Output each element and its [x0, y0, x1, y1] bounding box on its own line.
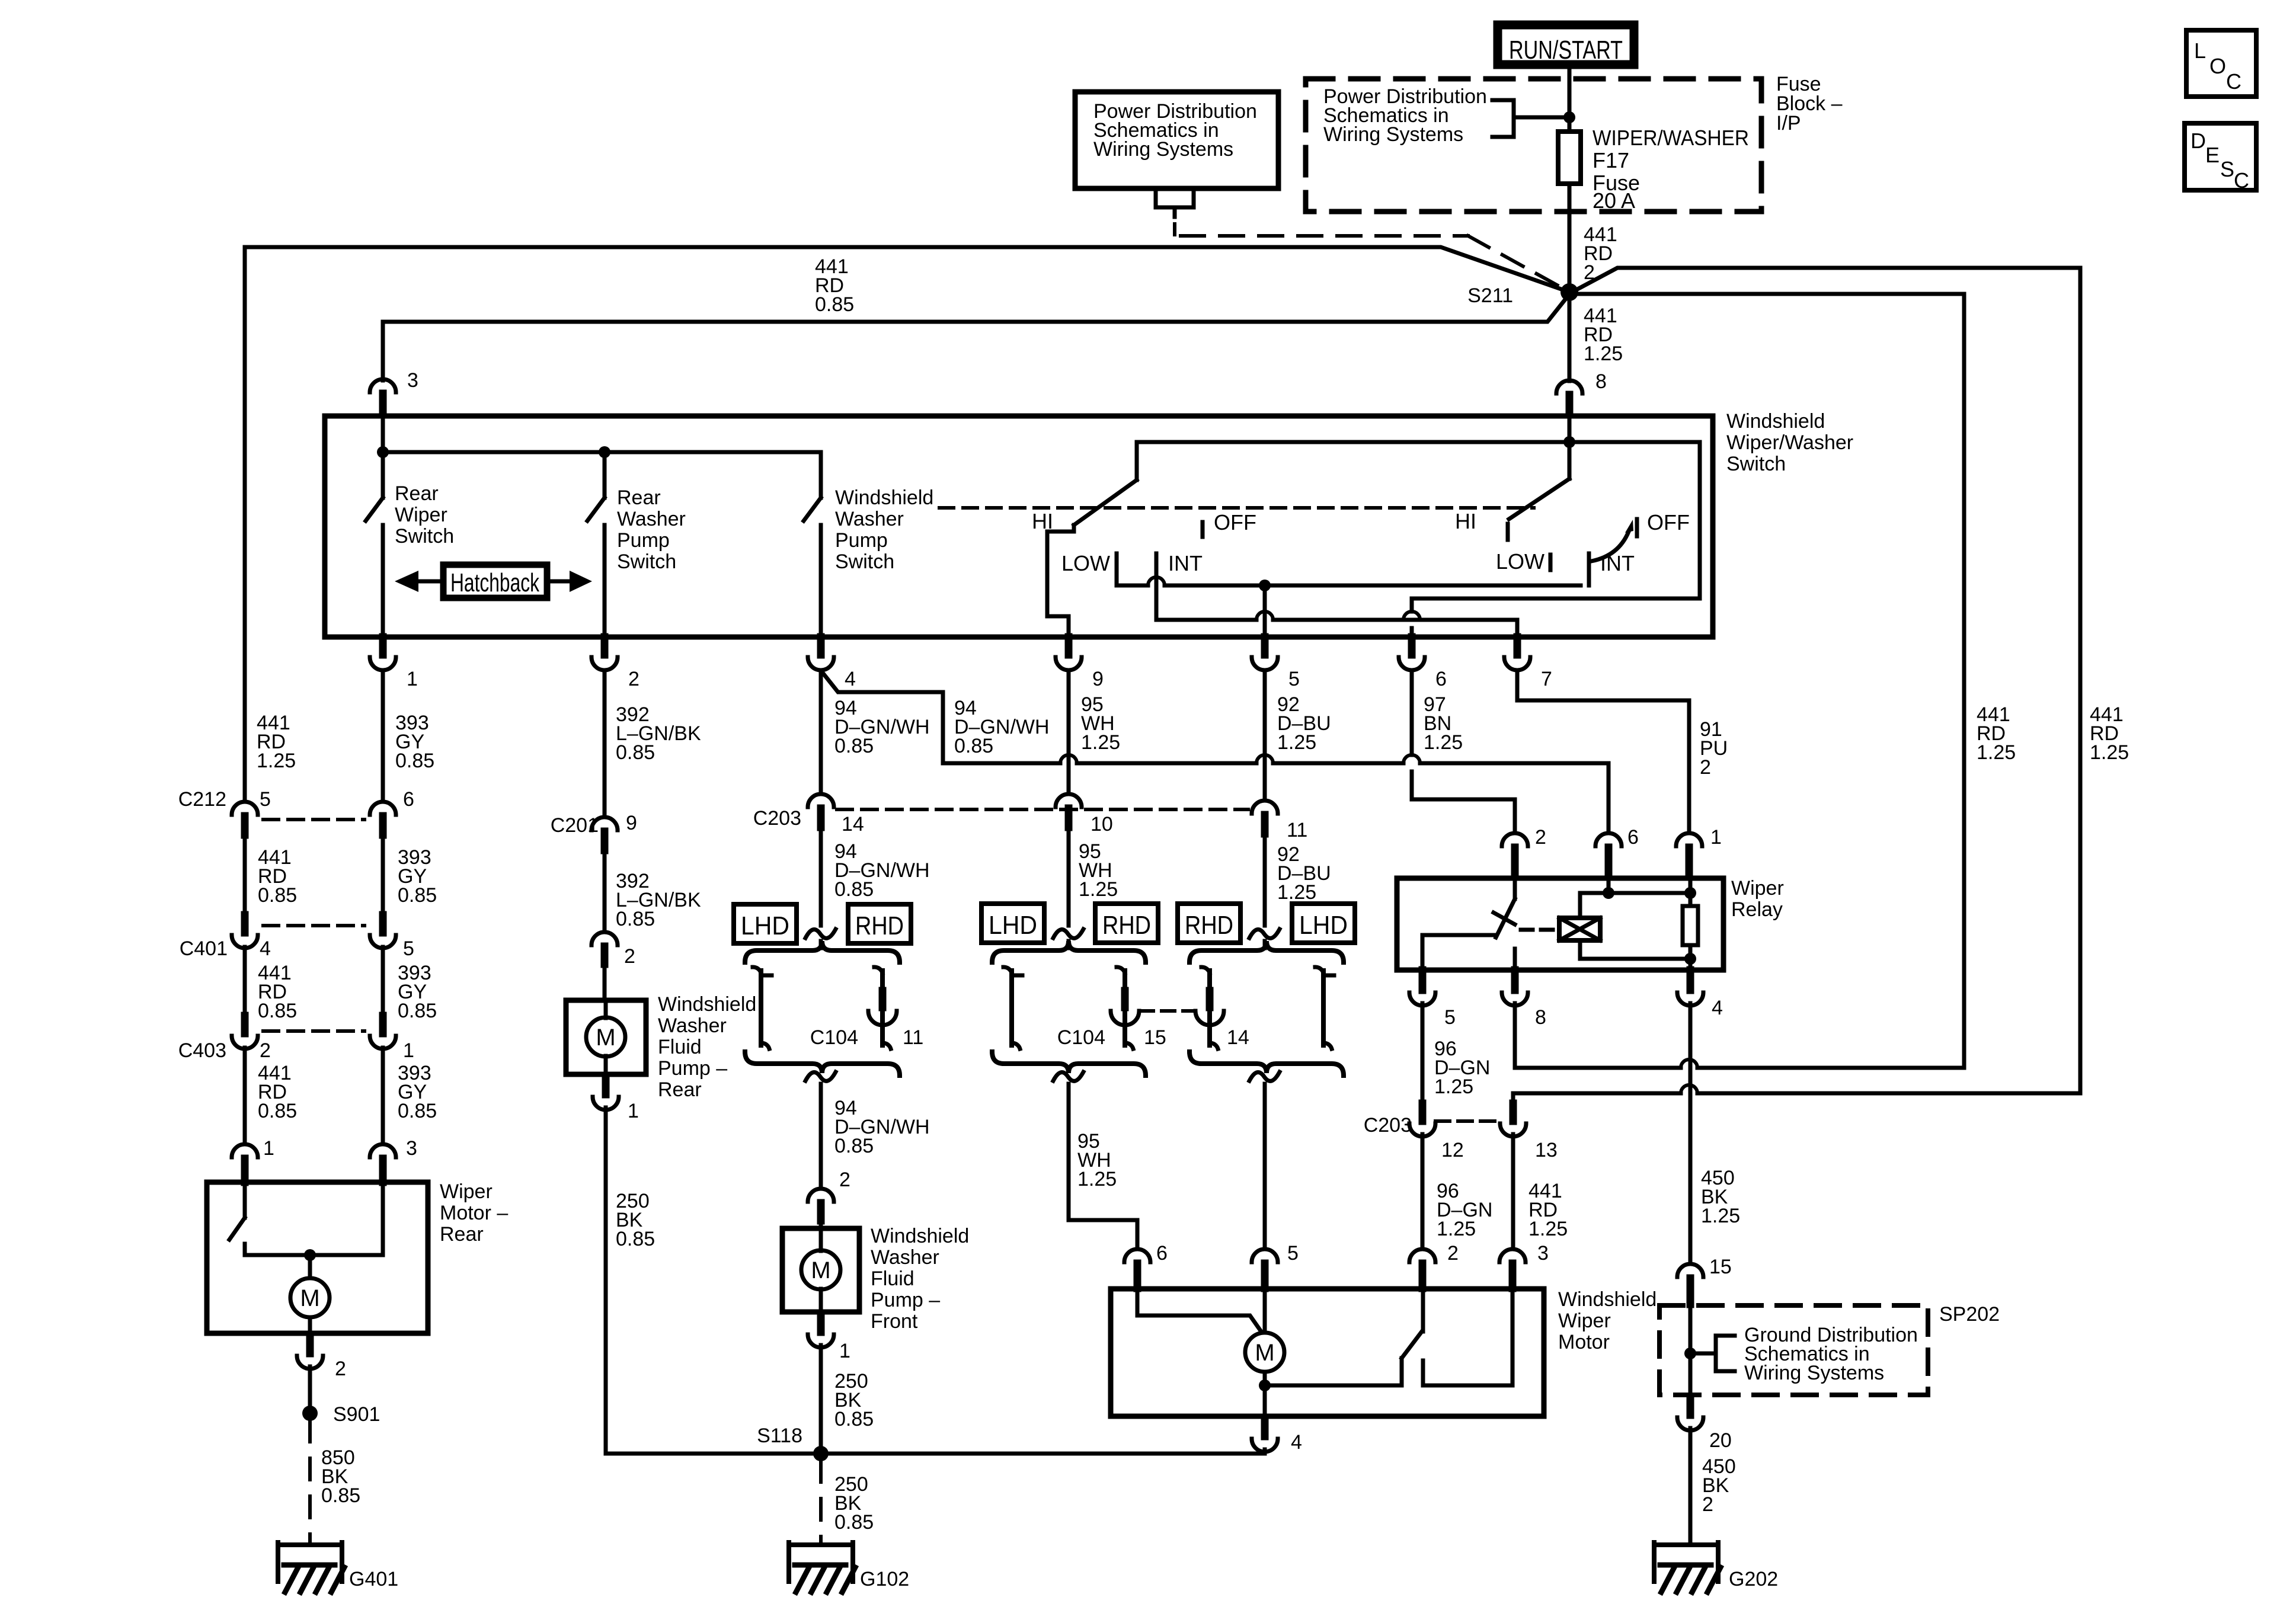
svg-text:C203: C203 [1364, 1114, 1412, 1137]
wire front pump M connections [819, 1228, 823, 1251]
connector pin 5 switch bottom [1261, 637, 1269, 655]
svg-text:Pump –: Pump – [658, 1057, 727, 1080]
wire 250 BK dashed to G102 [819, 1461, 823, 1542]
connector wiper motor pin 3 [1499, 1249, 1526, 1262]
dashed link C401 [263, 924, 364, 927]
svg-text:Pump: Pump [835, 529, 888, 552]
svg-text:Motor: Motor [1558, 1331, 1610, 1353]
svg-text:4: 4 [845, 668, 856, 690]
wire 441 RD riser to C203-13 [1697, 1092, 2080, 1096]
svg-text:Wiring Systems: Wiring Systems [1323, 123, 1463, 146]
node relay pin6 junction [1603, 887, 1614, 899]
wire relay pin 4 down [1689, 1003, 1693, 1264]
svg-text:1.25: 1.25 [1528, 1218, 1568, 1240]
wire 450 BK 2 to G202 [1689, 1428, 1693, 1542]
svg-text:Rear: Rear [395, 482, 439, 505]
svg-text:2: 2 [1447, 1242, 1459, 1265]
wire into front pump [819, 1221, 823, 1228]
connector pin 9 switch bottom [1065, 637, 1073, 655]
rear washer pump switch arm [603, 452, 607, 498]
brace C104 washer bottom [745, 1052, 900, 1076]
svg-text:Washer: Washer [871, 1246, 939, 1269]
mechanical link dashed line [939, 506, 1534, 510]
left wiper switch arm (HI) [1135, 442, 1139, 480]
svg-text:I/P: I/P [1776, 112, 1801, 135]
svg-text:Washer: Washer [835, 508, 904, 530]
connector C401 cavity 5 [379, 915, 387, 933]
wire from RUN/START to fuse F17 [1568, 69, 1572, 132]
svg-text:Switch: Switch [1726, 453, 1786, 475]
wire 94 below brace to front pump [805, 1072, 836, 1081]
svg-text:RHD: RHD [855, 911, 904, 940]
svg-text:Rear: Rear [440, 1223, 484, 1246]
svg-text:12: 12 [1441, 1139, 1464, 1161]
svg-text:0.85: 0.85 [616, 1228, 655, 1250]
svg-text:D: D [2191, 129, 2206, 153]
svg-text:7: 7 [1541, 668, 1552, 690]
windshield wiper motor box [1111, 1289, 1544, 1416]
svg-text:2: 2 [1535, 826, 1546, 849]
wire motor pin 4 to S118 line [1263, 1449, 1267, 1454]
wire S118 ground line [606, 1452, 1265, 1456]
wire rear motor pin2 to S901 [308, 1366, 312, 1407]
splice S118 [813, 1446, 829, 1461]
wire 94 to LHD/RHD split [819, 827, 823, 926]
svg-text:RHD: RHD [1102, 911, 1151, 940]
wire 441 RD 0.85 C401-C403 [243, 947, 247, 1014]
wire 850 BK dashed to G401 [308, 1420, 312, 1542]
wire S211 up-right to right drop [1574, 268, 2080, 1093]
dashed link C203 upper [837, 808, 1248, 811]
connector wiper relay pin 4 [1687, 970, 1694, 990]
node INT bus to pin 5 [1259, 580, 1271, 591]
svg-text:3: 3 [1537, 1242, 1549, 1265]
svg-text:5: 5 [1287, 1242, 1299, 1265]
wire 393 GY 0.85 C401-C403 [381, 947, 385, 1014]
svg-text:9: 9 [626, 812, 637, 834]
wire 392 to pump [603, 850, 607, 932]
wire 250 BK front pump to S118 [819, 1345, 823, 1447]
svg-text:LHD: LHD [989, 911, 1037, 940]
svg-text:M: M [300, 1285, 319, 1311]
svg-text:M: M [811, 1257, 830, 1283]
svg-text:4: 4 [1712, 997, 1723, 1019]
svg-text:2: 2 [335, 1358, 346, 1380]
splice S211 [1560, 283, 1578, 301]
svg-text:Wiring Systems: Wiring Systems [1093, 138, 1233, 161]
svg-text:11: 11 [1287, 819, 1307, 841]
svg-text:0.85: 0.85 [834, 878, 874, 901]
svg-text:1.25: 1.25 [1424, 731, 1463, 754]
wire 441 RD second left run [383, 296, 1568, 322]
wire 94 branch to relay [822, 672, 1060, 763]
svg-text:0.85: 0.85 [834, 1135, 874, 1157]
terminal C104 92 LHD [1315, 967, 1323, 973]
terminal C104 low LHD [1003, 967, 1012, 973]
svg-text:Switch: Switch [395, 525, 454, 548]
svg-text:2: 2 [1702, 1493, 1713, 1516]
rear washer pump switch contact wire [603, 525, 607, 637]
left INT contact [1155, 553, 1159, 620]
svg-text:Pump: Pump [617, 529, 670, 552]
svg-text:5: 5 [260, 788, 271, 811]
wire 92 below brace to motor pin5 [1249, 1072, 1280, 1081]
svg-text:1.25: 1.25 [1277, 731, 1316, 754]
svg-text:M: M [1255, 1340, 1274, 1366]
svg-text:14: 14 [842, 813, 864, 836]
node rear motor common [304, 1249, 316, 1261]
wire pin3 drop [381, 322, 385, 380]
connector wiper motor pin 2 [1409, 1249, 1435, 1262]
connector C401 cavity 4 [241, 915, 249, 933]
svg-text:5: 5 [1288, 668, 1300, 690]
terminal C104 washer LHD [753, 967, 761, 973]
connector wiper relay pin 2 [1502, 833, 1528, 846]
svg-text:Wiper/Washer: Wiper/Washer [1726, 431, 1853, 454]
wire 441 RD 0.85 to rear motor [243, 1048, 247, 1144]
svg-text:1.25: 1.25 [1277, 881, 1316, 904]
svg-text:OFF: OFF [1647, 510, 1690, 534]
wiper switch pivot bus [1137, 440, 1700, 444]
svg-text:Switch: Switch [835, 550, 894, 573]
fuse block I/P dashed outline [1306, 79, 1761, 212]
connector C203 cavity 14 [808, 794, 834, 807]
splice S901 [302, 1406, 318, 1421]
rear motor common bar [245, 1253, 383, 1257]
wire pump M connections [604, 1000, 608, 1018]
svg-text:3: 3 [407, 369, 418, 392]
tag LOC box [2186, 30, 2256, 97]
left OFF position tick [1201, 522, 1205, 537]
svg-text:0.85: 0.85 [398, 1000, 437, 1022]
brace C104 92 bottom [1189, 1052, 1344, 1076]
svg-text:L: L [2194, 39, 2206, 63]
svg-text:4: 4 [1291, 1431, 1302, 1454]
motor park switch arm [1265, 1358, 1402, 1385]
svg-text:C403: C403 [178, 1039, 226, 1062]
tag LHD box (low speed) [981, 904, 1044, 943]
connector SP202 pin 15 [1677, 1264, 1703, 1277]
tag RHD box (washer) [848, 904, 911, 943]
wire 96 D-GN relay pin5 down [1421, 1003, 1425, 1101]
svg-text:OFF: OFF [1214, 510, 1256, 534]
relay coil [1559, 918, 1600, 940]
wire rear M to pin 2 [308, 1317, 312, 1333]
connector wiper relay pin 6 [1595, 833, 1622, 846]
svg-text:1: 1 [1710, 826, 1722, 849]
relay resistor [1689, 878, 1693, 906]
connector wiper relay pin 1 [1676, 833, 1702, 846]
svg-text:10: 10 [1091, 813, 1113, 836]
connector pin 4 switch bottom [817, 637, 825, 655]
svg-text:0.85: 0.85 [398, 884, 437, 907]
connector C203 cavity 10 [1056, 794, 1082, 807]
brace C104 washer top [745, 941, 900, 962]
wire motor pin6 to M low brush [1137, 1289, 1262, 1333]
svg-text:S901: S901 [333, 1403, 380, 1426]
wire to rear motor M [308, 1255, 312, 1278]
svg-text:Windshield: Windshield [1558, 1288, 1657, 1311]
svg-text:2: 2 [1700, 756, 1711, 779]
svg-text:1.25: 1.25 [1434, 1076, 1473, 1098]
svg-text:Wiper: Wiper [395, 504, 447, 526]
wire pivot bus loop to pin 6 [1412, 442, 1700, 612]
svg-text:8: 8 [1535, 1006, 1546, 1029]
washer fluid pump rear box [566, 1000, 646, 1074]
wiper relay box [1397, 878, 1723, 970]
svg-text:G401: G401 [349, 1568, 398, 1590]
wire 393 GY 0.85 C212-C401 [381, 835, 385, 914]
svg-text:Fluid: Fluid [871, 1267, 914, 1290]
splice pack SP202 dashed box [1659, 1305, 1928, 1395]
left HI contact wire to pin 9 [1047, 532, 1069, 637]
terminal C104 cavity 15 [1117, 967, 1125, 973]
wire 393 GY from pin 1 [381, 670, 385, 801]
svg-text:Windshield: Windshield [871, 1225, 969, 1247]
svg-text:Hatchback: Hatchback [450, 568, 540, 597]
box Power Distribution Schematics (left) [1075, 92, 1278, 188]
svg-text:14: 14 [1227, 1026, 1249, 1049]
wiper motor rear box [207, 1182, 428, 1333]
motor park contact from pin 3 [1423, 1289, 1512, 1385]
connector rear wiper motor pin 1 [232, 1144, 258, 1157]
right LOW position tick [1549, 555, 1553, 570]
wire 250 BK rear pump to S118 line [604, 1108, 608, 1454]
svg-text:0.85: 0.85 [954, 735, 993, 757]
dashed link C403 [263, 1029, 364, 1033]
hatchback range arrows and box [443, 565, 547, 598]
svg-text:8: 8 [1595, 370, 1607, 393]
left LOW contact and wire [1115, 553, 1119, 585]
svg-text:C104: C104 [810, 1026, 858, 1049]
svg-text:C104: C104 [1057, 1026, 1105, 1049]
svg-text:0.85: 0.85 [834, 1408, 874, 1430]
wire LOW to INT bus (upper) [1117, 584, 1148, 588]
connector pin 3 rear wiper switch feed [370, 379, 396, 392]
tag DESC box [2185, 123, 2256, 190]
wire left INT to pin 7 (lower) [1156, 618, 1256, 622]
svg-text:O: O [2209, 54, 2226, 78]
motor M rear [290, 1278, 330, 1317]
wire into rear pump [603, 964, 607, 1000]
svg-text:9: 9 [1092, 668, 1104, 690]
wire pin5 drop [1263, 585, 1267, 637]
svg-text:0.85: 0.85 [616, 908, 655, 930]
tag RHD box (92) [1178, 904, 1240, 943]
svg-text:Windshield: Windshield [1726, 410, 1825, 433]
wire 92 D-BU from pin 5 [1263, 670, 1267, 801]
svg-text:6: 6 [1627, 826, 1639, 849]
rear wiper switch contact wire [381, 525, 385, 637]
wire relay pin6 to pin1 [1609, 891, 1690, 895]
svg-text:1: 1 [403, 1039, 414, 1062]
connector below SP202 pin 20 [1687, 1397, 1694, 1415]
wire M to common node [1263, 1372, 1267, 1385]
svg-text:4: 4 [260, 937, 271, 960]
svg-text:LOW: LOW [1496, 549, 1544, 574]
svg-text:1.25: 1.25 [1081, 731, 1120, 754]
svg-text:0.85: 0.85 [815, 293, 854, 316]
svg-text:Wiper: Wiper [440, 1180, 493, 1203]
svg-text:2: 2 [260, 1039, 271, 1062]
svg-text:15: 15 [1709, 1256, 1732, 1278]
bracket below left note [1156, 188, 1194, 207]
svg-text:Windshield: Windshield [835, 486, 933, 509]
svg-text:1.25: 1.25 [1584, 343, 1623, 365]
svg-text:S211: S211 [1467, 284, 1513, 307]
connector C403 cavity 1 [379, 1016, 387, 1033]
wire pin 3 into box [381, 416, 385, 452]
node motor common [1259, 1379, 1271, 1391]
wire 392 L-GN/BK from pin 2 [603, 670, 607, 817]
relay switch arm [1513, 878, 1517, 899]
right wiper switch arm (HI) [1568, 442, 1572, 479]
svg-text:Motor –: Motor – [440, 1202, 508, 1224]
rear wiper switch arm [381, 452, 385, 498]
svg-text:E: E [2205, 143, 2220, 167]
svg-text:1.25: 1.25 [2090, 741, 2129, 764]
svg-text:HI: HI [1032, 509, 1053, 533]
svg-text:13: 13 [1535, 1139, 1558, 1161]
node relay resistor bottom [1684, 953, 1696, 965]
connector rear motor pin 2 [306, 1336, 314, 1353]
hot-at-all-times bar RUN/START [1498, 25, 1634, 65]
svg-text:LHD: LHD [1299, 911, 1348, 940]
connector wiper motor pin 4 [1261, 1419, 1269, 1436]
svg-text:HI: HI [1455, 509, 1476, 533]
wire motor pin5 to M [1263, 1289, 1267, 1333]
svg-text:1.25: 1.25 [1077, 1168, 1117, 1190]
svg-text:0.85: 0.85 [321, 1484, 360, 1507]
svg-text:C: C [2234, 168, 2249, 193]
svg-text:G202: G202 [1729, 1568, 1778, 1590]
connector C203 cavity 11 [1252, 801, 1278, 814]
svg-text:Wiper: Wiper [1731, 877, 1784, 900]
windshield washer pump switch contact wire [819, 525, 823, 637]
svg-text:C: C [2226, 69, 2241, 94]
node relay pin1 junction [1684, 887, 1696, 899]
svg-text:2: 2 [628, 668, 639, 690]
relay switch contact to pin 8 [1513, 949, 1517, 970]
svg-text:1.25: 1.25 [1977, 741, 2016, 764]
connector wiper relay pin 5 [1419, 970, 1427, 990]
svg-text:Switch: Switch [617, 550, 676, 573]
wire 393 GY 0.85 to rear motor [381, 1048, 385, 1144]
relay common to pin 5 [1422, 935, 1495, 970]
svg-text:Wiper: Wiper [1558, 1310, 1611, 1332]
svg-text:0.85: 0.85 [258, 884, 297, 907]
svg-text:WIPER/WASHER: WIPER/WASHER [1593, 126, 1749, 150]
svg-text:S118: S118 [757, 1425, 802, 1447]
svg-text:1.25: 1.25 [257, 750, 296, 772]
right INT-OFF arrow [1591, 532, 1629, 561]
svg-text:LHD: LHD [741, 911, 789, 940]
connector C203 cavity 13 [1510, 1103, 1517, 1121]
svg-text:Rear: Rear [617, 486, 661, 509]
node SP202 junction [1684, 1347, 1696, 1359]
svg-text:SP202: SP202 [1939, 1303, 2000, 1326]
svg-text:Rear: Rear [658, 1078, 702, 1101]
ground G202 [1654, 1542, 1718, 1547]
wire fuse to S211 [1568, 184, 1572, 287]
connector front washer pump pin 2 [808, 1189, 834, 1202]
node fuse feed junction [1563, 111, 1575, 123]
wire S211 right to second drop [1576, 294, 1964, 1068]
switch feed bus (left) [383, 450, 821, 454]
svg-text:LOW: LOW [1061, 551, 1110, 575]
motor M front washer pump [801, 1250, 840, 1289]
brace C104 low bottom [992, 1052, 1146, 1076]
crossover lower wire over pin6 wire [1403, 612, 1420, 620]
motor M rear washer pump [586, 1017, 625, 1057]
terminal C104 cavity 11 [874, 967, 882, 973]
connector wiper motor pin 5 [1252, 1249, 1278, 1262]
connector front washer pump pin 1 [817, 1314, 825, 1332]
wire motor common to pin 4 [1263, 1385, 1267, 1416]
right OFF position tick [1635, 519, 1639, 536]
connector C201 cavity 9 [591, 817, 618, 830]
dashed link C104 15-14 [1140, 1009, 1194, 1013]
svg-text:6: 6 [403, 788, 414, 811]
wire relay pin 6 to coil [1607, 878, 1611, 893]
rear motor park contact [243, 1244, 247, 1255]
wire 97 BN to relay pin 2 [1412, 799, 1515, 833]
wire pin 8 into box [1568, 416, 1572, 442]
rear motor park switch arm [243, 1182, 247, 1218]
node bus at rear washer switch [599, 446, 610, 458]
svg-text:20: 20 [1709, 1429, 1732, 1452]
dashed link C203 lower [1435, 1119, 1500, 1123]
wire 95 below brace to motor [1053, 1072, 1083, 1081]
tag LHD box (92) [1292, 904, 1355, 943]
connector rear washer pump pin 2 [591, 932, 618, 945]
svg-text:Front: Front [871, 1310, 918, 1333]
dashed wire from note bracket to S211 [1173, 224, 1176, 235]
svg-text:M: M [596, 1025, 615, 1051]
wire coil bottom to pin 4 leg [1578, 940, 1582, 959]
svg-text:Wiring Systems: Wiring Systems [1744, 1362, 1884, 1384]
svg-text:C212: C212 [178, 788, 226, 811]
wire 441 RD to motor pin 3 [1511, 1134, 1515, 1249]
bracket SP202 note [1690, 1352, 1716, 1356]
svg-text:C401: C401 [180, 937, 228, 960]
svg-text:RUN/START: RUN/START [1509, 36, 1623, 65]
ground G401 [278, 1542, 342, 1547]
connector pin 8 windshield wiper/washer switch [1556, 380, 1582, 393]
wire 95 to LHD/RHD split [1067, 827, 1071, 926]
connector wiper motor pin 6 [1124, 1249, 1150, 1262]
svg-text:C203: C203 [753, 807, 801, 830]
washer fluid pump front box [782, 1228, 859, 1312]
wire 441 RD 0.85 top-left run [245, 247, 1565, 290]
svg-text:Fluid: Fluid [658, 1036, 702, 1058]
svg-text:2: 2 [624, 945, 635, 968]
connector wiper relay pin 8 [1511, 970, 1519, 990]
svg-text:0.85: 0.85 [258, 1100, 297, 1122]
connector pin 1 switch bottom [379, 637, 387, 655]
connector pin 6 switch bottom [1408, 637, 1416, 655]
wire 96 D-GN to motor pin 2 [1421, 1134, 1425, 1249]
svg-text:F17: F17 [1593, 148, 1629, 172]
svg-text:6: 6 [1435, 668, 1447, 690]
svg-text:15: 15 [1144, 1026, 1166, 1049]
svg-text:Windshield: Windshield [658, 993, 756, 1016]
wire 441 down to C212 area [243, 247, 247, 802]
svg-text:0.85: 0.85 [398, 1100, 437, 1122]
wire 95 WH from pin 9 [1067, 670, 1071, 794]
windshield washer pump switch arm [819, 452, 823, 498]
wire S211 down to switch pin 8 [1568, 300, 1572, 381]
